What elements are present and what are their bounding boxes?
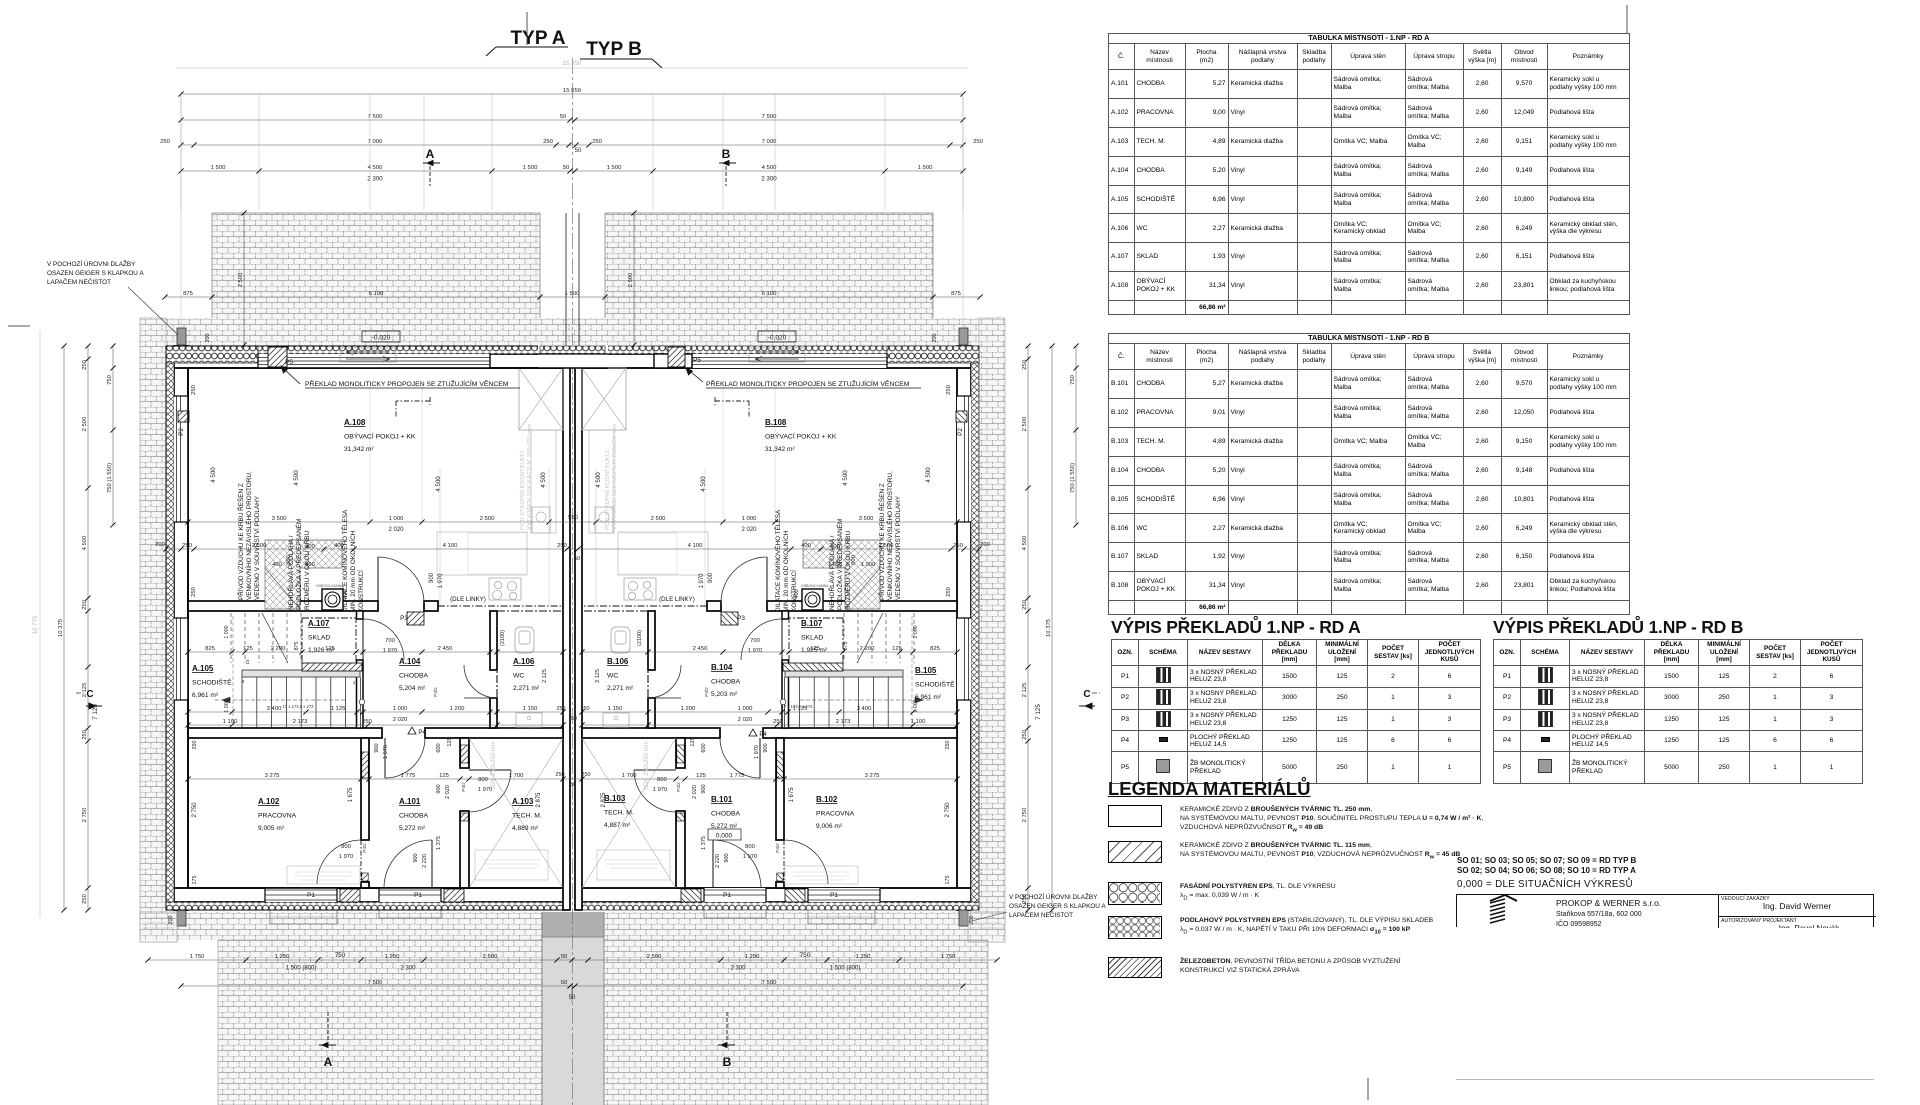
svg-text:50: 50 xyxy=(563,165,570,171)
svg-text:3 500: 3 500 xyxy=(859,516,874,522)
door chodba A104 down xyxy=(384,738,386,778)
svg-text:A.108: A.108 xyxy=(344,418,366,427)
svg-text:P2: P2 xyxy=(957,428,964,436)
tech room diagonals xyxy=(469,738,563,888)
legend heading xyxy=(1108,778,1310,800)
dimension chain y=522 xyxy=(185,516,959,525)
svg-text:B.101: B.101 xyxy=(711,795,733,804)
svg-text:9: 9 xyxy=(242,679,245,684)
wall exterior bottom xyxy=(174,888,566,902)
dim faint overall 15350 xyxy=(176,60,968,68)
svg-text:A: A xyxy=(426,147,435,161)
kitchen tall cabinet xyxy=(519,368,563,430)
svg-text:TECH. M.: TECH. M. xyxy=(512,813,542,820)
svg-text:600: 600 xyxy=(436,743,442,752)
wc door xyxy=(464,665,497,698)
svg-text:A: A xyxy=(324,1055,333,1069)
svg-text:1 675: 1 675 xyxy=(789,787,795,803)
svg-text:1 500: 1 500 xyxy=(918,165,933,171)
svg-text:1 500: 1 500 xyxy=(565,291,580,297)
svg-text:800: 800 xyxy=(745,844,755,850)
svg-text:17 x 173,5 x 272: 17 x 173,5 x 272 xyxy=(782,704,814,709)
svg-text:400: 400 xyxy=(272,562,282,568)
svg-text:WC: WC xyxy=(607,673,618,680)
svg-text:750 (1 550): 750 (1 550) xyxy=(107,463,113,493)
svg-text:P3: P3 xyxy=(400,615,408,622)
svg-text:NEHOŘLAVÁ PODLAHA /: NEHOŘLAVÁ PODLAHA / xyxy=(286,535,295,610)
svg-text:2 875: 2 875 xyxy=(536,792,542,808)
svg-text:600: 600 xyxy=(701,743,707,752)
svg-text:9,006 m²: 9,006 m² xyxy=(816,823,843,830)
stairs inner dim line xyxy=(232,616,234,725)
level -0,020 A xyxy=(362,331,400,342)
frame line bottom right xyxy=(1456,1079,1874,1080)
svg-text:250: 250 xyxy=(557,706,566,712)
svg-text:B.107: B.107 xyxy=(801,619,823,628)
svg-text:PŘÍVOD VZDUCHU KE KRBU ŘEŠEN Z: PŘÍVOD VZDUCHU KE KRBU ŘEŠEN Z xyxy=(877,483,886,600)
svg-text:2 750: 2 750 xyxy=(945,802,951,818)
note box A103 xyxy=(475,850,548,880)
svg-text:250: 250 xyxy=(82,359,88,370)
svg-text:200: 200 xyxy=(969,915,975,924)
svg-text:4,887 m²: 4,887 m² xyxy=(604,822,631,829)
svg-text:200: 200 xyxy=(155,542,165,548)
svg-text:2 500: 2 500 xyxy=(483,954,498,960)
dimension chain y=652 xyxy=(579,646,959,655)
note geiger top-left xyxy=(47,259,178,335)
svg-text:750: 750 xyxy=(335,952,346,959)
sklad A.107 outline xyxy=(302,618,356,664)
svg-text:1 750: 1 750 xyxy=(190,954,205,960)
svg-text:P5: P5 xyxy=(285,359,293,366)
svg-text:15 050: 15 050 xyxy=(563,88,582,94)
rotated annotation xyxy=(877,471,902,600)
svg-text:700: 700 xyxy=(750,638,760,644)
svg-text:250: 250 xyxy=(773,719,784,725)
svg-text:1 500 (800): 1 500 (800) xyxy=(830,966,861,972)
dimension chain x=1028 xyxy=(1022,343,1031,912)
svg-text:125: 125 xyxy=(892,646,903,652)
svg-text:3 275: 3 275 xyxy=(265,773,280,779)
kitchen sink xyxy=(532,507,550,533)
svg-text:5,203 m²: 5,203 m² xyxy=(711,691,738,698)
svg-text:250: 250 xyxy=(1022,599,1028,610)
svg-text:1 700: 1 700 xyxy=(509,773,524,779)
svg-text:PŘEKLAD MONOLITICKY PROPOJEN S: PŘEKLAD MONOLITICKY PROPOJEN SE ZTUŽUJÍC… xyxy=(706,379,910,388)
dimension chain y=725 xyxy=(579,719,959,728)
svg-text:175: 175 xyxy=(945,876,951,885)
svg-text:550: 550 xyxy=(568,515,578,521)
svg-text:250: 250 xyxy=(191,587,197,597)
svg-text:250: 250 xyxy=(592,139,603,145)
svg-text:10 375: 10 375 xyxy=(1046,618,1052,637)
paving terrace top-left xyxy=(212,213,540,346)
svg-text:P4/2: P4/2 xyxy=(362,843,367,853)
level -0,020 B xyxy=(758,331,796,342)
svg-text:OSAZEN GEIGER S KLAPKOU A: OSAZEN GEIGER S KLAPKOU A xyxy=(1009,903,1106,910)
room label A.101 xyxy=(399,797,429,832)
svg-text:31,342 m²: 31,342 m² xyxy=(765,446,795,453)
svg-text:700: 700 xyxy=(385,638,395,644)
svg-text:1 000: 1 000 xyxy=(742,516,757,522)
svg-text:4 500: 4 500 xyxy=(210,467,217,483)
svg-text:ROZMĚRU V OKOLÍ KRBU: ROZMĚRU V OKOLÍ KRBU xyxy=(302,530,311,610)
door A.103 xyxy=(469,769,511,771)
insulation band top xyxy=(166,346,566,354)
svg-text:1 200: 1 200 xyxy=(681,706,696,712)
svg-text:2 020: 2 020 xyxy=(393,717,408,723)
svg-text:V POCHOZÍ ÚROVNI DLAŽBY: V POCHOZÍ ÚROVNI DLAŽBY xyxy=(1009,892,1098,901)
section C left xyxy=(76,689,102,709)
dimension chain x=64 xyxy=(58,343,67,912)
svg-text:250: 250 xyxy=(1022,359,1028,370)
room label A.102 xyxy=(258,797,297,832)
note geiger bottom-right xyxy=(968,892,1106,922)
svg-text:4 500: 4 500 xyxy=(82,535,88,550)
expansion strip dark grey xyxy=(542,912,604,937)
svg-text:A.103: A.103 xyxy=(512,797,534,806)
svg-text:10: 10 xyxy=(245,659,250,665)
svg-text:P1: P1 xyxy=(723,892,731,899)
paving terrace top-right xyxy=(605,213,933,346)
svg-text:4 500: 4 500 xyxy=(540,472,547,488)
rotated annotation xyxy=(286,519,311,610)
svg-text:SKLAD: SKLAD xyxy=(801,635,823,642)
svg-text:50: 50 xyxy=(571,716,577,722)
top wall centre monolithic patch xyxy=(538,345,608,355)
svg-text:7 000: 7 000 xyxy=(762,139,777,145)
svg-text:200: 200 xyxy=(932,333,938,342)
room label A.105 xyxy=(192,664,232,699)
svg-text:2 300: 2 300 xyxy=(730,966,746,972)
kitchen dash line xyxy=(438,605,563,607)
room label B.102 xyxy=(816,795,855,830)
svg-text:4 500: 4 500 xyxy=(700,476,707,492)
svg-text:4 500: 4 500 xyxy=(842,470,849,486)
rotated annotation xyxy=(604,424,618,530)
extension lines living xyxy=(369,380,371,522)
svg-text:SDK 250x250 mm: SDK 250x250 mm xyxy=(644,741,650,790)
svg-text:875: 875 xyxy=(951,291,962,297)
svg-text:CHODBA: CHODBA xyxy=(711,811,741,818)
svg-text:CHODBA: CHODBA xyxy=(399,673,429,680)
svg-text:1 500: 1 500 xyxy=(607,165,622,171)
window bottom (pracovna) xyxy=(174,888,337,902)
legend row xyxy=(1108,841,1162,863)
svg-text:250: 250 xyxy=(182,543,193,549)
svg-text:2 750: 2 750 xyxy=(192,802,198,818)
svg-text:PRACOVNA: PRACOVNA xyxy=(816,811,855,818)
svg-text:125: 125 xyxy=(243,646,254,652)
svg-text:50: 50 xyxy=(575,148,582,154)
window left lower (stairs) xyxy=(174,618,188,700)
svg-text:A.101: A.101 xyxy=(399,797,421,806)
svg-text:800: 800 xyxy=(341,844,351,850)
svg-text:2 200: 2 200 xyxy=(860,646,875,652)
stairs break line xyxy=(262,613,288,663)
sliding door arrows xyxy=(346,350,390,355)
svg-text:C: C xyxy=(86,689,93,700)
sklad door leaf xyxy=(362,619,364,660)
svg-text:TYP A: TYP A xyxy=(511,28,566,49)
svg-text:250: 250 xyxy=(362,719,373,725)
dimension chain x=634 xyxy=(628,210,637,347)
room label B.106 xyxy=(607,657,634,692)
svg-text:2 500: 2 500 xyxy=(82,416,88,431)
svg-text:2 125: 2 125 xyxy=(1022,682,1028,697)
dimension chain x=88 xyxy=(82,343,91,912)
svg-text:P4/2: P4/2 xyxy=(775,843,780,853)
sklad hatch wall xyxy=(302,663,362,671)
svg-text:PŘÍVOD VZDUCHU KE KRBU ŘEŠEN Z: PŘÍVOD VZDUCHU KE KRBU ŘEŠEN Z xyxy=(236,483,245,600)
dimension chain y=94 xyxy=(178,88,965,97)
svg-text:875: 875 xyxy=(183,291,194,297)
svg-text:15 350: 15 350 xyxy=(563,60,582,67)
dimension chain y=652 xyxy=(185,646,565,655)
svg-text:825: 825 xyxy=(930,646,941,652)
paving band above top wall xyxy=(140,318,1005,346)
svg-text:VYTVOŘEN SDK KASTLÍK 250x250 m: VYTVOŘEN SDK KASTLÍK 250x250 mm xyxy=(525,424,533,530)
svg-text:125: 125 xyxy=(690,737,696,746)
svg-text:250: 250 xyxy=(973,139,984,145)
svg-text:P1: P1 xyxy=(830,892,838,899)
party wall A half xyxy=(563,346,570,910)
note box A102 xyxy=(287,866,360,884)
expansion strip light grey xyxy=(542,937,604,1105)
svg-text:DILATACE KOMÍNOVÉHO TĚLESA: DILATACE KOMÍNOVÉHO TĚLESA xyxy=(340,509,349,612)
svg-text:1 970: 1 970 xyxy=(339,854,354,860)
svg-text:OBÝVACÍ POKOJ + KK: OBÝVACÍ POKOJ + KK xyxy=(344,432,416,441)
svg-text:P4/2: P4/2 xyxy=(433,687,438,697)
svg-text:2 750: 2 750 xyxy=(82,807,88,822)
kitchen counter xyxy=(437,532,527,575)
party wall extension lines top xyxy=(565,213,567,346)
svg-text:6 100: 6 100 xyxy=(369,291,384,297)
svg-text:1 100: 1 100 xyxy=(223,719,238,725)
wall V4 chodba/tech xyxy=(460,738,469,768)
room label A.108 xyxy=(344,418,416,453)
drain box bottom left xyxy=(140,912,177,942)
svg-text:2 300: 2 300 xyxy=(367,176,383,183)
svg-text:MIN. 20 mm OD OKOLNÍCH: MIN. 20 mm OD OKOLNÍCH xyxy=(781,530,790,612)
svg-text:4 500: 4 500 xyxy=(1022,535,1028,550)
svg-text:TYP B: TYP B xyxy=(586,39,642,60)
svg-text:900: 900 xyxy=(413,853,419,862)
title block xyxy=(1456,894,1874,927)
svg-text:OSAZEN GEIGER S KLAPKOU A: OSAZEN GEIGER S KLAPKOU A xyxy=(47,270,144,277)
svg-text:A.106: A.106 xyxy=(513,657,535,666)
svg-text:900: 900 xyxy=(701,784,707,793)
svg-text:B.103: B.103 xyxy=(604,794,626,803)
svg-text:PODLOŽKA V PŘEDEPSANÉM: PODLOŽKA V PŘEDEPSANÉM xyxy=(835,519,844,610)
svg-text:2 300: 2 300 xyxy=(400,966,416,972)
P4 markers xyxy=(408,727,416,734)
section marker A top xyxy=(423,147,440,186)
paving large area bottom xyxy=(218,940,988,1105)
svg-text:2 450: 2 450 xyxy=(693,646,708,652)
svg-text:1 500: 1 500 xyxy=(211,165,226,171)
svg-text:2 125: 2 125 xyxy=(542,669,548,683)
chimney xyxy=(322,589,343,610)
svg-text:B.102: B.102 xyxy=(816,795,838,804)
svg-text:CHODBA: CHODBA xyxy=(399,813,429,820)
svg-text:4 500: 4 500 xyxy=(595,472,602,488)
svg-text:P5: P5 xyxy=(693,357,701,364)
svg-text:1 000: 1 000 xyxy=(913,699,919,712)
svg-text:SCHODIŠTĚ: SCHODIŠTĚ xyxy=(915,680,955,689)
wall V2 chodba/wc xyxy=(490,611,497,670)
wall exterior top xyxy=(174,354,566,368)
svg-text:(DLE LINKY): (DLE LINKY) xyxy=(659,596,695,603)
building geometry unit B (mirrored) xyxy=(575,328,1005,942)
rotated annotation xyxy=(827,519,852,610)
svg-text:250: 250 xyxy=(192,741,198,750)
exterior outline emphasis xyxy=(166,346,570,910)
rotated annotation xyxy=(519,424,533,530)
svg-text:2 450: 2 450 xyxy=(438,646,453,652)
svg-text:P4/2: P4/2 xyxy=(461,782,466,792)
svg-text:2 020: 2 020 xyxy=(692,785,698,799)
svg-text:1 500 (800): 1 500 (800) xyxy=(286,966,317,972)
lintel P1 hatches xyxy=(340,889,360,902)
svg-text:2 500: 2 500 xyxy=(651,516,666,522)
stairs walk line xyxy=(215,699,345,701)
toilet xyxy=(515,627,534,653)
svg-text:250: 250 xyxy=(160,139,171,145)
lintel schedule VÝPIS PŘEKLADŮ 1.NP - RD A xyxy=(1111,617,1361,638)
dimension chain y=712 xyxy=(185,706,565,715)
newel circle xyxy=(359,699,365,705)
dimension chain y=120 xyxy=(178,114,965,123)
svg-text:2 220: 2 220 xyxy=(422,854,428,868)
svg-text:125: 125 xyxy=(439,773,450,779)
svg-text:1 375: 1 375 xyxy=(436,836,442,850)
svg-text:175: 175 xyxy=(192,876,198,885)
paving strip below building xyxy=(140,912,1005,940)
interior face outline xyxy=(188,368,563,888)
room label A.107 xyxy=(308,619,335,654)
svg-text:4 500: 4 500 xyxy=(435,476,442,492)
svg-text:4 500: 4 500 xyxy=(293,470,300,486)
wall V3 pracovna/chodba xyxy=(361,738,369,840)
dimension chain y=145 xyxy=(160,139,984,148)
svg-text:2,271 m²: 2,271 m² xyxy=(513,685,540,692)
svg-text:250: 250 xyxy=(543,139,554,145)
dimension chain y=297 xyxy=(162,291,982,300)
svg-text:1 775: 1 775 xyxy=(401,773,416,779)
svg-text:1 500: 1 500 xyxy=(523,165,538,171)
svg-text:1 150: 1 150 xyxy=(523,706,538,712)
svg-text:(DLE LINKY): (DLE LINKY) xyxy=(450,596,486,603)
svg-text:1 000: 1 000 xyxy=(389,516,404,522)
dimension chain x=1076 xyxy=(1070,343,1079,527)
room label B.105 xyxy=(915,666,955,701)
SO notes xyxy=(1457,856,1636,890)
rotated annotation xyxy=(773,509,798,612)
svg-text:A.105: A.105 xyxy=(192,664,214,673)
svg-text:A.107: A.107 xyxy=(308,619,330,628)
svg-text:B.106: B.106 xyxy=(607,657,629,666)
svg-text:1 200: 1 200 xyxy=(450,706,465,712)
room label A.103 xyxy=(512,797,542,832)
svg-text:875: 875 xyxy=(843,642,849,651)
svg-text:1 970: 1 970 xyxy=(383,745,389,759)
svg-text:(2100): (2100) xyxy=(637,630,643,646)
svg-text:1,926 m²: 1,926 m² xyxy=(308,647,335,654)
svg-text:4 500: 4 500 xyxy=(925,467,932,483)
svg-text:250: 250 xyxy=(82,729,88,740)
svg-text:P1: P1 xyxy=(414,892,422,899)
svg-text:VEDENO V SOUVRSTVÍ PODLAHY: VEDENO V SOUVRSTVÍ PODLAHY xyxy=(893,495,902,600)
stairs A.105 lower flight treads xyxy=(242,677,360,728)
entry threshold xyxy=(270,910,337,924)
svg-text:KONSTRUKCÍ: KONSTRUKCÍ xyxy=(356,570,365,612)
wall H2 middle/bottom xyxy=(188,728,382,738)
room label B.103 xyxy=(604,794,634,829)
svg-text:50: 50 xyxy=(560,114,567,120)
svg-text:1 250: 1 250 xyxy=(745,954,760,960)
wc sink xyxy=(516,713,542,727)
svg-text:200: 200 xyxy=(980,542,990,548)
svg-text:50: 50 xyxy=(570,782,576,788)
svg-text:VEDENO V SOUVRSTVÍ PODLAHY: VEDENO V SOUVRSTVÍ PODLAHY xyxy=(252,495,261,600)
svg-text:KRBOVÁ KAMNA: KRBOVÁ KAMNA xyxy=(801,584,829,588)
lintel P3 hatch xyxy=(407,612,424,625)
fireplace pad hatch xyxy=(265,540,342,609)
svg-text:1 250: 1 250 xyxy=(856,954,871,960)
svg-text:B: B xyxy=(722,147,731,161)
svg-text:6,961 m²: 6,961 m² xyxy=(192,692,219,699)
svg-text:900: 900 xyxy=(436,784,442,793)
svg-text:2 500: 2 500 xyxy=(480,516,495,522)
section marker B top xyxy=(719,147,736,186)
svg-text:825: 825 xyxy=(205,646,216,652)
svg-text:800: 800 xyxy=(657,777,667,783)
wall exterior left xyxy=(174,346,188,910)
svg-text:1 375: 1 375 xyxy=(701,836,707,850)
svg-text:2 750: 2 750 xyxy=(1022,807,1028,822)
svg-text:1 000: 1 000 xyxy=(393,706,408,712)
svg-text:1: 1 xyxy=(353,680,356,685)
svg-text:PŘEKLAD MONOLITICKY PROPOJEN S: PŘEKLAD MONOLITICKY PROPOJEN SE ZTUŽUJÍC… xyxy=(305,379,509,388)
svg-text:250: 250 xyxy=(953,543,964,549)
svg-text:2 020: 2 020 xyxy=(445,785,451,799)
section C right xyxy=(1079,689,1100,709)
svg-text:NEHOŘLAVÁ PODLAHA /: NEHOŘLAVÁ PODLAHA / xyxy=(827,535,836,610)
svg-text:1 000: 1 000 xyxy=(738,706,753,712)
svg-text:KONSTRUKCÍ: KONSTRUKCÍ xyxy=(789,570,798,612)
svg-text:250: 250 xyxy=(945,741,951,750)
svg-text:ROZMĚRU V OKOLÍ KRBU: ROZMĚRU V OKOLÍ KRBU xyxy=(843,530,852,610)
svg-text:B.104: B.104 xyxy=(711,663,733,672)
svg-text:400: 400 xyxy=(801,543,812,549)
corner block insulation double xyxy=(166,346,258,363)
svg-text:3 275: 3 275 xyxy=(865,773,880,779)
svg-text:1 150: 1 150 xyxy=(608,706,623,712)
svg-text:2 173: 2 173 xyxy=(836,719,851,725)
svg-text:1 250: 1 250 xyxy=(275,954,290,960)
svg-text:P4: P4 xyxy=(759,732,767,738)
svg-text:250: 250 xyxy=(946,385,952,395)
svg-text:P1: P1 xyxy=(307,892,315,899)
svg-text:2,271 m²: 2,271 m² xyxy=(607,685,634,692)
svg-text:250: 250 xyxy=(191,385,197,395)
rotated annotation xyxy=(340,509,365,612)
svg-text:1 970: 1 970 xyxy=(743,854,758,860)
svg-text:250: 250 xyxy=(581,706,590,712)
svg-text:3 400: 3 400 xyxy=(857,706,872,712)
svg-text:3 500: 3 500 xyxy=(272,516,287,522)
